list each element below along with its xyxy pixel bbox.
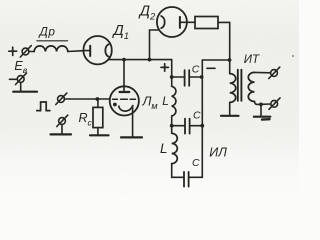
wire Rc to ground [97,128,99,135]
svg-text:L: L [160,141,168,156]
label + (PFN top) [161,64,168,71]
wire secondary to ground [260,104,262,115]
ground (Lm cathode) [121,136,142,138]
wire choke to D1 [68,50,84,53]
svg-text:С: С [193,109,201,121]
wire secondary top to output [255,71,271,73]
Lm grid (dashed) [113,98,136,100]
node PFN row1 left (junction dot) [170,75,174,79]
capacitor C2 [185,119,190,134]
node grid / Rc (junction dot) [96,97,100,101]
wire C1 to right branch [190,76,203,78]
node PFN row2 right (junction dot) [200,124,204,128]
inductor Dr (choke) [34,46,68,52]
svg-text:Др: Др [38,24,56,38]
svg-text:С: С [192,157,200,169]
wire terminal to ground [61,124,63,133]
ground (IT primary) [221,115,239,117]
ground (battery minus) [13,91,37,93]
D1 anode lead [84,50,90,52]
terminal - (Ev minus) [16,73,27,84]
label - (PFN top right) [207,67,215,69]
D1 cathode arc [105,44,108,57]
pulse symbol (trigger input) [37,102,50,111]
ground (secondary) [254,117,270,120]
diode D2 envelope [157,7,187,37]
D1 anode bar [89,46,91,56]
transformer IT core [238,70,242,101]
svg-text:ИТ: ИТ [244,54,260,66]
D2 anode lead [180,21,195,23]
wire primary to ground [229,102,231,114]
wire main bus [108,59,171,61]
node PFN row1 right (junction dot) [200,75,204,79]
diode D1 envelope [83,36,111,64]
wire L2 to C3 [172,164,184,178]
wire Lm cathode to ground [132,107,134,137]
terminal trigger return [57,115,68,126]
wire PFN right branch to IT [202,59,229,61]
wire D2 cathode down [150,30,159,60]
transformer IT primary winding [230,74,236,103]
inductor L2 [172,133,178,163]
thyratron Lm envelope [110,86,139,115]
Lm gas-filled dot [113,103,117,107]
wire L1 to row2 [171,116,173,133]
svg-text:ИЛ: ИЛ [209,146,227,160]
wire C3 to right branch [189,176,202,178]
terminal + (Ev plus) [20,46,31,57]
node D2 cathode (junction dot) [148,58,152,62]
wire row2 left to C2 [172,125,185,127]
wire resistor to IT primary [218,22,230,73]
D2 anode bar [179,17,181,28]
wire PFN left branch top [171,60,173,87]
wire PFN right branch [201,60,203,177]
wire junction to Rc [97,99,99,107]
transformer IT secondary winding [248,72,254,101]
svg-text:С: С [192,63,200,75]
node IT top (junction dot) [228,58,232,62]
node secondary bottom (junction dot) [259,103,263,107]
svg-text:L: L [162,94,169,108]
inductor L1 [172,86,176,116]
terminal output bottom [269,98,280,109]
node PFN row2 left (junction dot) [170,124,174,128]
wire trigger to grid [64,98,109,100]
capacitor C3 [184,172,189,187]
resistor Rc [93,107,103,127]
label Dr underline [37,40,68,42]
label minus (battery) [10,78,17,80]
resistor Ra (anode resistor) [195,17,218,29]
D2 cathode arc [161,16,164,28]
terminal trigger input [56,93,67,104]
wire bus to Lm anode [123,60,125,92]
ground (Rc) [90,134,109,136]
ground (trigger return) [51,133,72,135]
wire minus terminal to ground [20,83,22,91]
label + (plus sign) [9,47,17,55]
capacitor C1 [185,70,190,86]
node anode Lm (junction dot) [122,58,126,62]
wire row1 left to C1 [172,76,184,78]
Lm cathode arc [119,106,133,112]
speck [292,55,294,57]
wire plus terminal to choke [29,51,34,53]
Lm anode plate [120,91,130,93]
wire C2 to right branch [190,125,202,127]
wire secondary bottom [255,102,271,105]
terminal output top [269,67,280,78]
